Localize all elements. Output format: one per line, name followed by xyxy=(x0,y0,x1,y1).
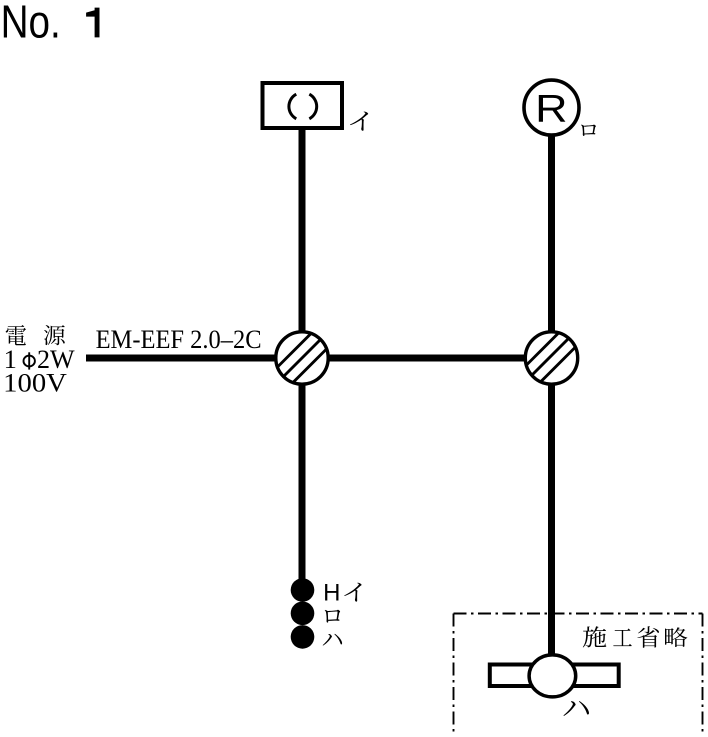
phi symbol xyxy=(24,352,35,369)
wire: ceiling light to left joint box (vertical) xyxy=(299,128,306,336)
switch label ハ xyxy=(323,634,342,646)
joint box left (hatched circle) xyxy=(262,303,342,414)
kanji 施 xyxy=(583,626,606,647)
switch ● ハ xyxy=(291,625,315,649)
svg-text:R: R xyxy=(535,88,567,131)
ceiling light fixture (rectangular) イ xyxy=(263,83,343,128)
circuit label ロ xyxy=(581,125,596,136)
svg-text:H: H xyxy=(323,580,340,607)
fluorescent light fixture ハ xyxy=(490,655,619,697)
kanji 省 xyxy=(637,626,659,648)
switch ● H イ xyxy=(291,578,315,602)
circuit label イ xyxy=(350,112,368,131)
kanji 略 xyxy=(665,627,687,647)
fluorescent label ハ xyxy=(563,701,589,716)
kanji 工 xyxy=(613,629,632,647)
svg-text:EM-EEF 2.0–2C: EM-EEF 2.0–2C xyxy=(96,324,262,354)
lamp receptacle R ロ xyxy=(524,80,579,135)
switch label イ xyxy=(344,583,361,602)
wire: lamp R to right joint box (vertical) xyxy=(548,134,555,336)
switch label ロ xyxy=(325,610,340,623)
wire: left joint box to switches (vertical) xyxy=(299,380,306,581)
wire: power feed (horizontal, EM-EEF 2.0-2C) xyxy=(86,355,300,362)
switch ● ロ xyxy=(291,602,315,626)
wire: left joint box to right joint box (horizontal) xyxy=(302,355,540,362)
kanji 電 (power) xyxy=(6,325,26,345)
kanji 源 (source) xyxy=(44,325,65,345)
svg-text:100V: 100V xyxy=(3,368,67,398)
wire: right joint box to fluorescent light (vertical) xyxy=(548,380,555,658)
svg-text:No.: No. xyxy=(1,0,61,48)
joint box right (hatched circle) xyxy=(512,300,592,411)
construction-omitted dash-dot boundary 施工省略 xyxy=(454,614,703,733)
